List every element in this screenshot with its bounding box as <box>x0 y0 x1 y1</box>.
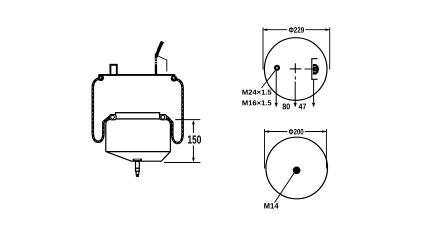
dim 47 <box>299 104 306 110</box>
bent air fitting lever <box>155 41 164 58</box>
label M16x1.5 <box>242 100 271 105</box>
bottom stud <box>136 161 140 177</box>
leader to stud labels <box>262 70 276 88</box>
label M14 <box>264 203 278 208</box>
air fitting on flange <box>305 59 320 80</box>
top bead ring right <box>171 75 177 81</box>
air port cylinder <box>110 65 116 75</box>
flange top view circle D229 <box>264 38 327 101</box>
dim 80 <box>283 104 290 110</box>
fitting support bracket wire <box>157 56 167 72</box>
combination stud <box>155 54 158 75</box>
piston bottom view circle D200 <box>266 137 328 199</box>
leader to M14 <box>275 173 295 203</box>
bellow left wall <box>93 78 110 142</box>
label M24x1.5 <box>242 90 271 95</box>
piston body <box>106 120 171 162</box>
top bead ring left <box>98 75 104 81</box>
dimension 150 <box>164 120 201 163</box>
piston clamp tab left <box>110 115 117 120</box>
extension line stud <box>275 71 278 108</box>
bellow right wall <box>167 79 183 143</box>
extension line center <box>294 82 297 108</box>
M14 center hole <box>293 166 301 174</box>
bottom stud cap <box>133 159 142 162</box>
dimension D229 <box>263 27 330 69</box>
extension line fitting <box>312 80 315 108</box>
piston top plate <box>116 113 160 119</box>
piston clamp tab right <box>160 115 167 120</box>
center cross mark <box>290 63 302 79</box>
air spring side view : top plate <box>98 74 175 76</box>
dimension D200 <box>265 129 327 169</box>
combo stud hole <box>274 65 280 71</box>
